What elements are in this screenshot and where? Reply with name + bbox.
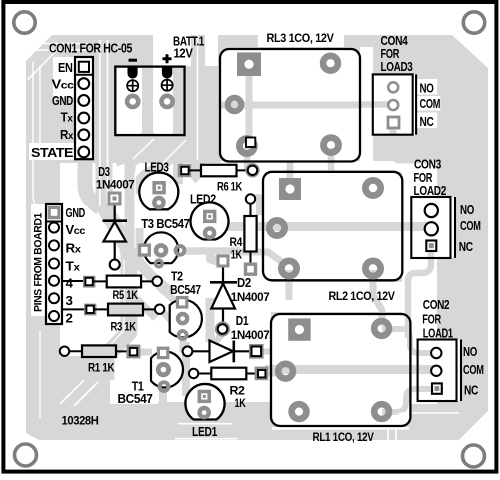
resistor R2 <box>189 367 268 381</box>
wire R3 pad to T2 bottom <box>163 312 180 330</box>
connector BOARD1 box <box>46 204 62 324</box>
relay RL2 square pad pin <box>279 178 301 200</box>
svg-text:T2: T2 <box>171 270 183 284</box>
wire RL3 horizontal trace <box>221 102 360 109</box>
white zone CON4 labels <box>416 79 437 95</box>
svg-text:NO: NO <box>420 82 434 96</box>
wire battery minus bend below box <box>115 132 148 160</box>
mounting hole top-right <box>463 12 484 33</box>
connector CON1 pin circles <box>78 78 89 157</box>
connector BOARD1 pin circles <box>49 223 59 322</box>
white interior CON4 <box>373 74 416 134</box>
wire RL2 bottom-right to RL1 top-right <box>373 270 382 326</box>
node junction square above RL3 bottom-left pad <box>246 138 255 148</box>
svg-text:RL2 1CO, 12V: RL2 1CO, 12V <box>329 289 395 303</box>
relay RL3 pad bottom-right <box>324 138 339 153</box>
svg-text:1N4007: 1N4007 <box>231 290 270 304</box>
wire R4 area to RL2 lower <box>240 252 285 264</box>
svg-text:1K: 1K <box>235 396 247 410</box>
wire T1-LED1 gap <box>182 342 190 396</box>
wire right-of-battery bundle <box>191 35 198 178</box>
svg-text:NC: NC <box>464 384 478 398</box>
white interior relay RL2 <box>263 172 402 280</box>
diode D3 symbol <box>103 206 128 260</box>
connector CON1 box <box>75 57 93 159</box>
white zone between RL2 and RL1 <box>263 282 410 312</box>
wire T2 bottom stub <box>180 336 187 352</box>
white zone STATE label <box>29 143 75 160</box>
connector CON2 pin NO <box>431 348 441 358</box>
svg-text:CON4: CON4 <box>381 34 408 48</box>
white interior BOARD1 <box>46 204 62 324</box>
white zone T1 labels <box>110 376 158 404</box>
wire RL2 square pad up <box>287 162 294 182</box>
svg-text:EN: EN <box>58 61 73 75</box>
white zone EN label <box>53 57 75 97</box>
white interior battery <box>115 67 184 136</box>
svg-text:LED1: LED1 <box>192 425 217 439</box>
svg-text:Vcc: Vcc <box>52 78 75 92</box>
svg-text:NC: NC <box>420 115 434 129</box>
diode D1 symbol <box>193 341 252 363</box>
svg-text:D3: D3 <box>98 165 110 179</box>
connector BOARD1 GND square pad <box>48 206 60 219</box>
svg-text:1N4007: 1N4007 <box>96 178 135 192</box>
white interior relay RL1 <box>271 314 410 426</box>
white zone right gap column <box>402 161 437 404</box>
wire RL1 top-right to CON2 NO <box>382 329 435 353</box>
resistor R1 <box>60 345 141 359</box>
connector CON2 box <box>418 340 461 402</box>
svg-text:1N4007: 1N4007 <box>231 328 270 342</box>
diode D2 bottom pad <box>217 324 228 335</box>
svg-text:12V: 12V <box>174 47 194 61</box>
wire below CON1 bundle <box>85 159 106 212</box>
mounting hole bottom-left <box>15 444 37 466</box>
relay RL3 pad mid-left <box>228 98 242 112</box>
svg-text:Vcc: Vcc <box>66 223 86 237</box>
svg-text:R3 1K: R3 1K <box>111 319 137 333</box>
white zone RL3 label <box>258 28 344 47</box>
wire T3 right pad to RL2 area <box>184 247 240 255</box>
connector CON3 pin NO <box>425 204 438 217</box>
traces group <box>85 35 440 412</box>
relay RL1 pad bottom-right <box>374 404 389 419</box>
battery terminal post plus <box>162 67 172 79</box>
wire RL1 horizontal trace <box>265 365 436 374</box>
wire CON3 NC down to CON2 <box>408 252 431 338</box>
connector CON3 box <box>411 197 455 258</box>
battery pad plus <box>162 96 173 107</box>
connector CON3 pin NC square <box>426 241 436 252</box>
svg-text:2: 2 <box>66 312 73 326</box>
battery screw plus <box>162 80 173 91</box>
relay RL1 pad top-right <box>374 321 389 336</box>
svg-text:R5 1K: R5 1K <box>113 288 139 302</box>
battery pad minus <box>127 96 138 107</box>
resistor R6 <box>178 164 258 177</box>
relay RL3 outline <box>220 49 360 162</box>
white interior relay RL3 <box>220 49 360 162</box>
wire D2 bottom to R2 area <box>212 334 222 360</box>
transistor T1 package <box>151 352 183 388</box>
svg-text:RL1 1CO, 12V: RL1 1CO, 12V <box>313 430 374 444</box>
wire bundle from CON1 down-left column <box>104 38 129 380</box>
wire T2 to D1 column <box>206 298 215 342</box>
diode D3 top pad <box>108 192 122 206</box>
white zone battery label <box>153 26 218 66</box>
connector BOARD1 divider <box>46 221 62 223</box>
svg-text:CON2: CON2 <box>423 298 450 312</box>
diode D2 symbol <box>210 268 237 323</box>
relay RL2 pad bottom-left <box>281 261 296 276</box>
svg-text:T3 BC547: T3 BC547 <box>141 217 190 231</box>
wire R2 pad to RL1 mid-left <box>262 371 282 377</box>
connector CON4 pin COM <box>388 100 398 110</box>
wire below RL3 pad left <box>244 148 251 170</box>
transistor T3 package <box>144 232 178 263</box>
svg-text:NO: NO <box>463 345 477 359</box>
connector CON1 pin EN square <box>79 62 89 72</box>
wire T1 pads to bottom band <box>159 390 167 404</box>
wire D3-LED3 gap trace <box>125 172 135 240</box>
wire R5-R3 weave diag <box>133 296 156 318</box>
svg-text:10328H: 10328H <box>62 414 99 428</box>
svg-text:D2: D2 <box>237 276 251 290</box>
relay RL3 pad top-right <box>323 56 338 71</box>
svg-text:COM: COM <box>420 97 441 111</box>
battery minus sign <box>129 59 138 62</box>
svg-text:LOAD1: LOAD1 <box>423 326 453 340</box>
svg-text:CON1 FOR HC-05: CON1 FOR HC-05 <box>49 41 132 55</box>
diode D2 top pad <box>217 255 230 268</box>
wire RL3 vertical pad trace <box>246 70 253 146</box>
wire RL3 to CON4 COM <box>360 101 391 108</box>
white interior CON3 <box>411 197 455 258</box>
svg-text:4: 4 <box>66 277 73 291</box>
relay RL1 pad bottom-left <box>292 404 307 419</box>
mounting hole top-left <box>14 12 35 33</box>
wire R5 pad to T2 <box>158 286 176 302</box>
mounting hole bottom-right <box>463 445 485 467</box>
svg-text:Tx: Tx <box>66 259 81 273</box>
wire D1 pad to RL1 <box>256 349 272 355</box>
white zone pins-from-board1 text strip <box>31 204 46 316</box>
svg-text:COM: COM <box>460 219 481 233</box>
relay RL1 outline <box>271 314 410 426</box>
white zone below RL3 <box>220 161 402 172</box>
connector CON2 pin NC square <box>432 383 442 393</box>
battery screw minus <box>127 80 138 91</box>
relay RL1 pad mid-left <box>278 364 293 379</box>
svg-text:COM: COM <box>463 363 484 377</box>
svg-text:PINS FROM BOARD1: PINS FROM BOARD1 <box>33 212 45 312</box>
battery BATT.1 outline <box>115 67 184 136</box>
svg-text:GND: GND <box>52 94 73 108</box>
svg-text:LED2: LED2 <box>190 193 216 207</box>
relay RL1 square pad pin <box>288 318 310 340</box>
resistor R3 <box>62 304 164 316</box>
diode D3 bottom pad <box>110 260 120 270</box>
wire below RL3 pad right <box>328 148 335 170</box>
svg-text:Tx: Tx <box>61 110 74 124</box>
svg-text:FOR: FOR <box>414 171 433 185</box>
connector CON1 divider <box>75 74 93 76</box>
wire battery traces through box <box>143 66 153 140</box>
svg-text:RL3 1CO, 12V: RL3 1CO, 12V <box>267 31 334 45</box>
bottom-left gray mass <box>47 356 110 404</box>
white separators bottom band <box>28 35 460 440</box>
svg-text:STATE: STATE <box>31 146 73 160</box>
resistor R5 <box>62 276 162 288</box>
relay RL2 pad top-right <box>365 180 380 195</box>
connector CON4 pin NO <box>388 82 398 92</box>
relay RL2 outline <box>263 172 402 280</box>
LED1 package <box>185 384 224 420</box>
wire battery plus trace <box>173 66 183 184</box>
wire battery minus trace <box>130 66 172 294</box>
transistor T3 pads <box>138 244 185 267</box>
relay RL3 square pad pin <box>237 52 261 76</box>
wire R4 top to RL2 <box>254 197 259 215</box>
svg-text:3: 3 <box>66 294 73 308</box>
transistor T2 pads <box>176 296 189 339</box>
svg-text:BC547: BC547 <box>170 283 201 297</box>
wire R1 pad to T1 <box>138 349 152 356</box>
transistor T1 pads <box>157 347 170 391</box>
LED1 pads <box>198 390 211 418</box>
battery plus sign <box>163 54 172 63</box>
connector CON4 box <box>373 74 416 134</box>
diode D1 right pad <box>249 344 264 359</box>
svg-text:NC: NC <box>459 240 473 254</box>
relay RL2 pad mid-left <box>269 220 284 235</box>
LED2 package <box>191 202 229 239</box>
board copper pour background <box>26 35 488 440</box>
white zone RL3-CON4 gap <box>360 47 373 161</box>
connector CON3 pin COM <box>425 222 438 235</box>
diode D1 left pad <box>183 346 193 356</box>
wire RL1 bottom-right to CON2 NC <box>382 389 432 412</box>
transistor T2 package <box>170 300 202 338</box>
svg-text:D1: D1 <box>236 314 249 328</box>
wire RL2 horizontal trace <box>215 222 433 231</box>
svg-text:GND: GND <box>66 206 86 220</box>
svg-text:FOR: FOR <box>422 313 441 327</box>
LED2 pads <box>203 210 216 238</box>
LED3 pads <box>152 181 165 207</box>
wire left of T3 <box>135 228 144 260</box>
svg-text:Rx: Rx <box>60 128 74 142</box>
svg-text:Rx: Rx <box>66 241 82 255</box>
svg-text:LED3: LED3 <box>145 160 169 174</box>
LED3 package <box>139 173 178 210</box>
wire bundle to D3 pad <box>104 201 113 212</box>
battery terminal post minus <box>128 67 138 79</box>
resistor R4 vertical <box>244 194 257 276</box>
white zone central board area <box>60 163 271 402</box>
relay RL3 pad bottom-left <box>239 139 254 154</box>
wire R6 area to D2 pad vertical <box>211 251 221 262</box>
wire RL2 bottom-left pad down <box>286 270 293 300</box>
svg-text:LOAD3: LOAD3 <box>381 60 413 74</box>
svg-text:R1 1K: R1 1K <box>88 360 115 374</box>
svg-text:BC547: BC547 <box>118 392 153 406</box>
svg-text:LOAD2: LOAD2 <box>414 184 447 198</box>
svg-text:CON3: CON3 <box>414 158 441 172</box>
white zone board1 labels <box>62 201 84 329</box>
white interior CON2 <box>418 340 461 402</box>
connector CON2 pin COM <box>431 366 441 376</box>
svg-text:R6 1K: R6 1K <box>217 179 243 193</box>
wire battery plus bend below box <box>136 132 178 194</box>
svg-text:1K: 1K <box>231 248 243 262</box>
connector CON4 pin NC square <box>388 117 399 128</box>
relay RL2 pad bottom-right <box>365 261 380 276</box>
wire CON4 NC down to right band <box>393 128 440 160</box>
svg-text:NO: NO <box>460 203 474 217</box>
white interior CON1 <box>75 57 93 159</box>
